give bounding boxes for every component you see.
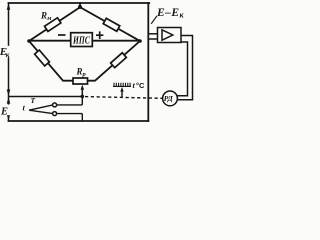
resistor lower-right arm (111, 53, 127, 68)
svg-text:РД: РД (164, 94, 174, 103)
wire arm lower-right (right node to Rp) (88, 41, 141, 81)
label minus (58, 34, 66, 36)
pointer arrow on scale (121, 90, 123, 97)
svg-text:к: к (6, 50, 10, 59)
thermocouple T leads (29, 96, 82, 121)
wire top rail (9, 2, 150, 4)
dimension line Eк / E (8, 3, 10, 121)
amplifier box (148, 28, 192, 100)
dimension arrows (7, 3, 11, 9)
wire arm lower-left (left node to Rp) (29, 41, 73, 81)
svg-text:E–E: E–E (156, 7, 179, 19)
label Eк (0, 46, 11, 57)
wire mid reference (to dimension line) (9, 96, 83, 98)
wire bottom rail (9, 120, 149, 122)
svg-text:Rм: Rм (40, 10, 52, 22)
scale comb (113, 83, 131, 87)
svg-text:к: к (180, 11, 185, 20)
svg-text:°C: °C (136, 81, 145, 90)
wire amp input upper (148, 33, 157, 35)
resistor lower-left arm (35, 50, 50, 66)
wire arm Rм (left node to apex) (29, 7, 80, 41)
svg-text:T: T (31, 96, 36, 105)
mechanical dashed link to motor (85, 97, 163, 99)
node wiper junction (81, 95, 85, 99)
amplifier triangle (162, 30, 173, 40)
node right (138, 39, 142, 43)
reochord Rp box (73, 78, 88, 84)
wire TC lower to bottom rail (57, 114, 83, 121)
wire arm upper-right (apex to right node) (80, 7, 140, 41)
wiper arrow of Rp (81, 89, 83, 97)
node left (27, 39, 31, 43)
motor РД circle (163, 91, 178, 106)
svg-text:ИПС: ИПС (72, 35, 90, 46)
wire amp to motor (inner) (177, 42, 187, 96)
node top apex (78, 5, 82, 9)
wire amp input lower (148, 38, 157, 40)
svg-text:Rр: Rр (76, 67, 87, 79)
thermocouple terminal circles (53, 103, 57, 107)
label E (0, 105, 11, 116)
svg-text:t: t (23, 103, 26, 113)
wire amp output to motor (outer) (177, 36, 192, 100)
resistor Rм (45, 18, 61, 32)
label E-Eк with leader (151, 16, 157, 24)
wire right down-rail (147, 3, 149, 121)
power source ИПС box (71, 33, 93, 47)
resistor upper-right arm (103, 18, 120, 31)
label plus (96, 31, 103, 39)
wire TC upper to wiper junction (57, 96, 83, 105)
svg-text:E: E (0, 107, 8, 118)
wire ИПС rail left (29, 40, 71, 42)
wire ИПС rail right (92, 40, 140, 42)
